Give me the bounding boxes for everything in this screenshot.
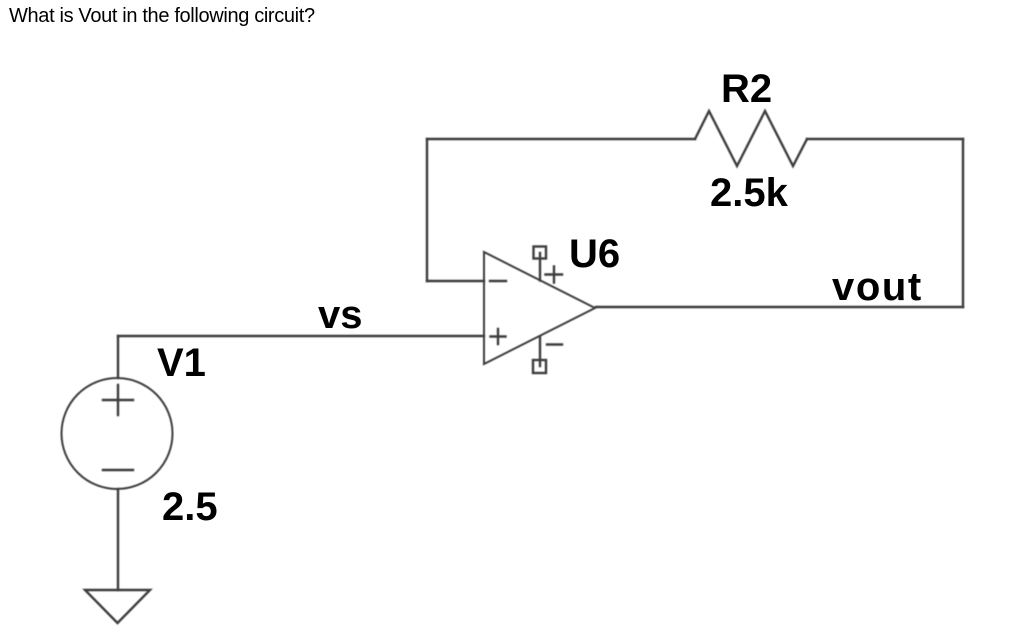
wire V1 bottom lead (117, 489, 119, 590)
V1 minus sign (103, 469, 133, 471)
op-amp V- pin square (533, 360, 546, 373)
wire feedback top left segment (427, 138, 695, 140)
op-amp V+ plus sign (546, 267, 563, 283)
svg-text:vout: vout (832, 265, 923, 309)
op-amp V- minus sign (547, 343, 562, 345)
svg-text:R2: R2 (721, 67, 772, 111)
wire output bottom (596, 306, 963, 308)
wire feedback left vertical (426, 139, 428, 281)
op-amp U6 (484, 252, 595, 364)
wire vs from V1 to non-inverting input (118, 335, 484, 337)
wire V1 top lead (117, 336, 119, 378)
svg-text:vs: vs (318, 293, 363, 337)
V1 plus sign (103, 385, 133, 415)
op-amp inverting input minus (490, 280, 506, 282)
resistor R2 (695, 111, 807, 166)
voltage source V1 (62, 378, 173, 489)
wire feedback top right segment (807, 138, 963, 140)
svg-text:U6: U6 (569, 232, 620, 276)
svg-text:V1: V1 (157, 341, 206, 385)
wire right vertical (962, 139, 964, 307)
wire to inverting input (427, 280, 484, 282)
op-amp V+ pin stub (539, 253, 541, 281)
svg-text:2.5: 2.5 (162, 485, 218, 529)
op-amp V- pin stub (539, 337, 541, 366)
op-amp non-inverting input plus (491, 329, 506, 344)
ground (85, 590, 150, 623)
op-amp V+ pin square (534, 247, 547, 259)
svg-text:2.5k: 2.5k (710, 171, 789, 215)
svg-text:What is Vout in the following: What is Vout in the following circuit? (9, 5, 315, 27)
